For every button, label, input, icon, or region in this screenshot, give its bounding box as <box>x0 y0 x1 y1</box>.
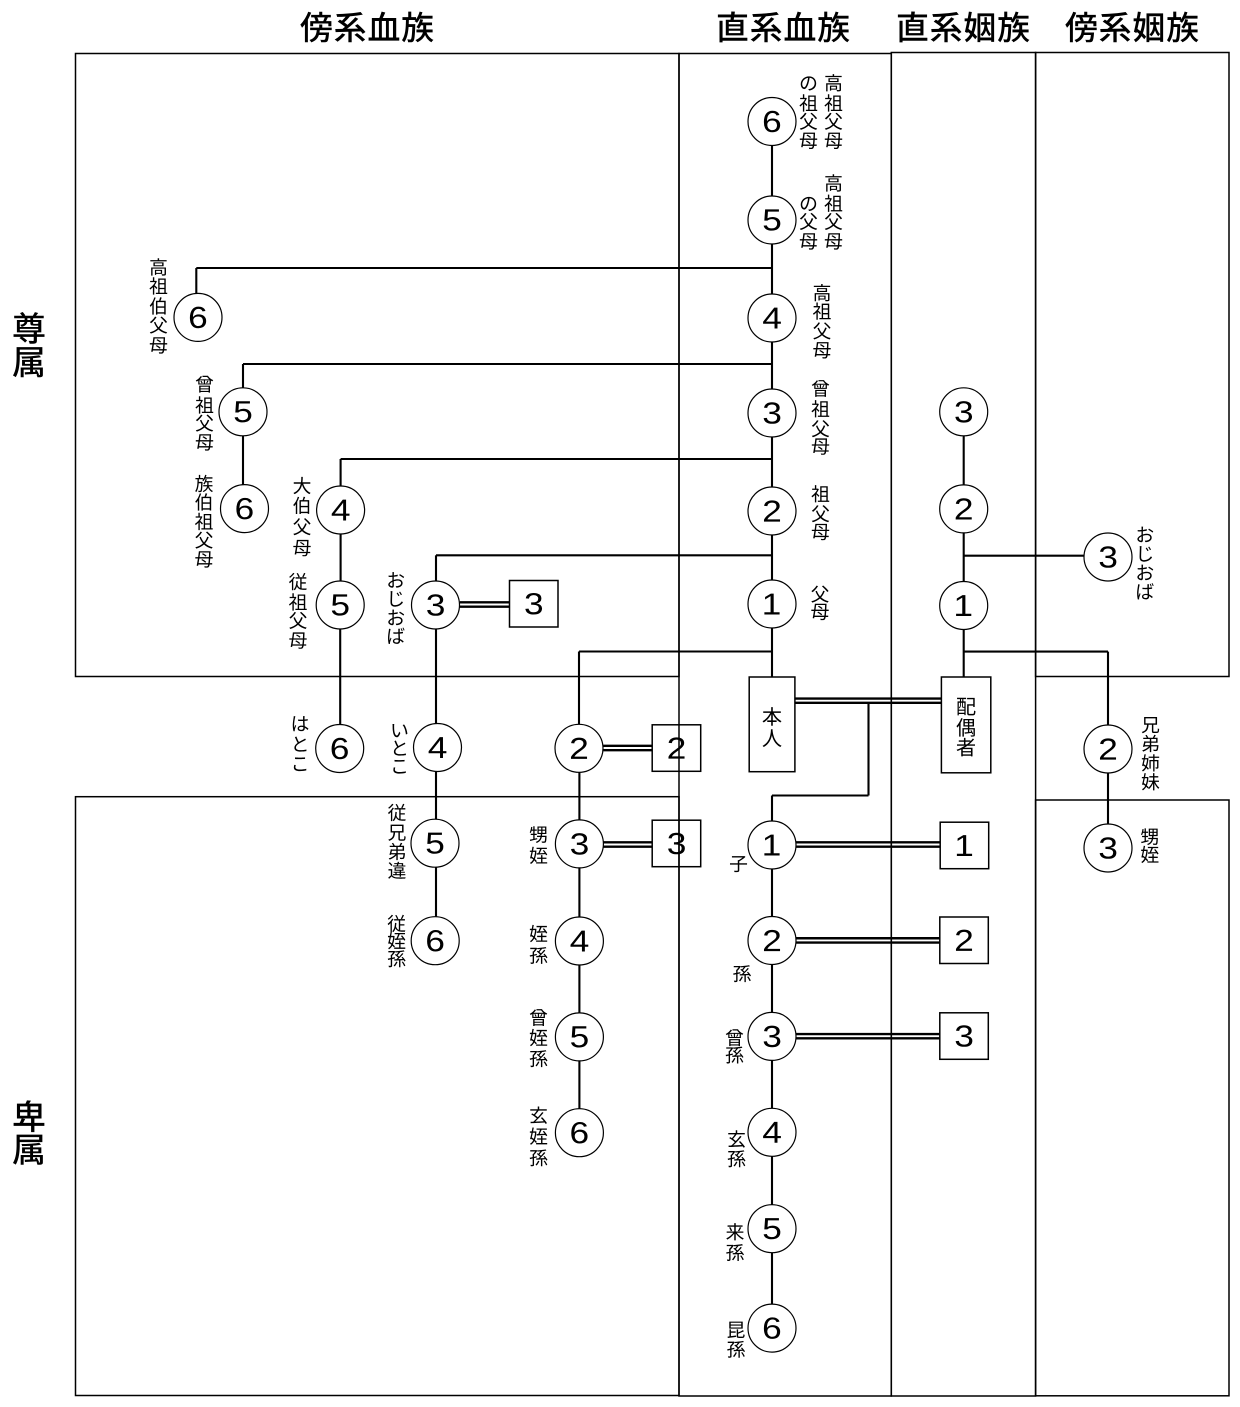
wire 兄弟姉妹(2)右-甥姪(3)右 <box>1107 773 1109 824</box>
node 子 1 <box>748 821 796 869</box>
header 直系血族 <box>718 12 850 43</box>
wire drop to おじおば(3) <box>435 555 437 581</box>
square おじおばの配偶者 3 <box>510 581 559 628</box>
marriage 孫(2)=配偶者(2) <box>795 938 940 942</box>
wire 従祖父母(5)-はとこ(6) <box>339 629 341 725</box>
square 子の配偶者 1 <box>940 822 989 869</box>
label 玄姪孫 <box>530 1106 548 1166</box>
node 高祖父母の父母 5 <box>748 196 796 244</box>
wire couple drop horizontal <box>772 794 869 796</box>
node 従兄弟違 5 <box>411 819 459 867</box>
wire 子(1)-孫(2) <box>771 869 773 917</box>
node 来孫 5 <box>748 1205 796 1253</box>
wire 孫(2)-曾孫(3) <box>771 965 773 1013</box>
node 兄弟姉妹(右) 2 <box>1084 725 1132 773</box>
label 従祖父母 <box>289 573 307 649</box>
box 傍系姻族 尊属 (top-right region frame) <box>1036 53 1229 677</box>
wire drop to 曾祖父母(5) <box>242 364 244 388</box>
wire 従兄弟違(5)-従姪孫(6) <box>435 867 437 916</box>
label 高祖父母の父母 <box>800 174 842 249</box>
node 祖父母 2 <box>748 487 796 535</box>
label 子 <box>730 856 747 872</box>
wire 配偶者側(1)-配偶者 <box>963 630 965 678</box>
node 昆孫 6 <box>748 1304 796 1352</box>
wire 甥姪(3)-姪孫(4) <box>578 868 580 918</box>
node 直系姻族 2 <box>940 485 988 533</box>
label 甥姪 <box>530 826 548 864</box>
wire drop to 子(1) <box>771 796 773 821</box>
wire branch to 兄弟姉妹(2) <box>579 650 772 652</box>
wire branch to おじおば(右) <box>964 555 1084 557</box>
square 兄弟姉妹の配偶者 2 <box>652 725 701 772</box>
node 曾姪孫 5 <box>555 1013 603 1061</box>
box 直系姻族 column frame <box>891 53 1035 1397</box>
box 傍系血族 卑属 (bottom-left region frame) <box>76 797 680 1396</box>
wire drop to 兄弟姉妹(2)右 <box>1107 652 1109 725</box>
box 傍系血族 尊属 (top-left region frame) <box>76 54 680 677</box>
node おじおば(左) 3 <box>412 581 460 629</box>
wire drop to 大伯父母(4) <box>340 459 342 486</box>
label 従兄弟違 <box>388 804 406 879</box>
label おじおば(右) <box>1137 527 1154 600</box>
node 高祖伯父母 6 <box>174 293 222 341</box>
marriage 曾孫(3)=配偶者(3) <box>795 1034 940 1038</box>
wire 高祖父母(4)-曾祖父母(3) <box>771 343 773 390</box>
marriage 兄弟姉妹(2)=配偶者(2) <box>603 746 652 750</box>
wire branch to 配偶者の兄弟姉妹 <box>964 651 1108 653</box>
node 直系姻族 3 <box>940 388 988 436</box>
node おじおば(右) 3 <box>1084 533 1132 581</box>
wire 大伯父母(4)-従祖父母(5) <box>340 534 342 581</box>
square 曾孫の配偶者 3 <box>940 1013 989 1060</box>
node いとこ 4 <box>414 724 462 772</box>
marriage 甥姪(3)=配偶者(3) <box>603 842 652 846</box>
label いとこ <box>392 724 407 774</box>
node 甥姪 3 <box>555 820 603 868</box>
node 甥姪(右) 3 <box>1084 824 1132 872</box>
label 昆孫 <box>727 1322 745 1358</box>
wire branch to 曾祖父母(5) <box>243 363 772 365</box>
wire 配偶者側(3)-(2) <box>963 436 965 485</box>
label おじおば(左) <box>388 572 405 644</box>
node 高祖父母 4 <box>748 294 796 342</box>
marriage 子(1)=配偶者(1) <box>795 842 940 846</box>
wire branch to おじおば(左) <box>436 554 772 556</box>
label 族伯祖父母 <box>195 475 213 568</box>
wire branch to 大伯父母 <box>341 458 772 460</box>
node 玄孫 4 <box>748 1108 796 1156</box>
wire 曾姪孫(5)-玄姪孫(6) <box>578 1061 580 1109</box>
node 兄弟姉妹 2 <box>555 724 603 772</box>
label 高祖父母の祖父母 <box>799 74 842 149</box>
label 祖父母 <box>811 485 829 540</box>
node 配偶者 box <box>941 677 990 773</box>
label 曾孫 <box>726 1029 744 1063</box>
wire 姪孫(4)-曾姪孫(5) <box>578 965 580 1013</box>
node 高祖父母の祖父母 6 <box>748 98 796 146</box>
wire couple drop vertical <box>867 703 869 796</box>
wire 来孫(5)-昆孫(6) <box>771 1253 773 1304</box>
wire 曾祖父母(5)-族伯祖父母(6) <box>242 436 244 485</box>
node 曾孫 3 <box>748 1012 796 1060</box>
wire 兄弟姉妹(2)-甥姪(3) <box>578 772 580 820</box>
label 曾姪孫 <box>530 1009 548 1067</box>
side label 卑属 <box>13 1100 44 1164</box>
wire 祖父母(2)-父母(1) <box>771 536 773 581</box>
marriage 本人=配偶者 <box>795 699 942 703</box>
label 曾祖父母(傍系) <box>195 376 213 451</box>
label 来孫 <box>726 1223 744 1261</box>
label 高祖父母 <box>813 284 831 359</box>
node 玄姪孫 6 <box>555 1109 603 1157</box>
label 曾祖父母 <box>811 380 829 455</box>
header 直系姻族 <box>898 12 1030 43</box>
box 傍系姻族 卑属 (bottom-right region frame) <box>1036 800 1229 1396</box>
label 姪孫 <box>530 925 548 964</box>
node はとこ 6 <box>316 725 364 773</box>
side label 尊属 <box>13 312 45 377</box>
label 甥姪(右) <box>1141 828 1159 863</box>
wire 配偶者側(2)-(1) <box>963 533 965 582</box>
node 従姪孫 6 <box>411 917 459 965</box>
label 従姪孫 <box>388 915 406 967</box>
node 曾祖父母 3 <box>748 389 796 437</box>
marriage おじおば(3)=配偶者(3) <box>460 602 510 606</box>
wire 父母(1)-本人 <box>771 629 773 678</box>
label 玄孫 <box>728 1130 746 1167</box>
node 大伯父母 4 <box>317 486 365 534</box>
label 高祖伯父母 <box>149 258 167 353</box>
wire いとこ(4)-従兄弟違(5) <box>435 771 437 819</box>
label 大伯父母 <box>293 477 311 556</box>
node 曾祖父母(傍系) 5 <box>219 388 267 436</box>
label 兄弟姉妹(右) <box>1142 717 1160 790</box>
node 姪孫 4 <box>555 917 603 965</box>
wire 曾祖父母(3)-祖父母(2) <box>771 438 773 488</box>
node 族伯祖父母 6 <box>221 485 269 533</box>
node 父母 1 <box>748 580 796 628</box>
header 傍系血族 <box>300 12 433 43</box>
label 孫 <box>733 965 751 982</box>
header 傍系姻族 <box>1065 12 1198 43</box>
node 本人 box <box>749 677 795 772</box>
label はとこ <box>293 716 309 771</box>
wire 玄孫(4)-来孫(5) <box>771 1156 773 1204</box>
square 甥姪の配偶者 3 <box>652 820 701 867</box>
label 父母 <box>811 586 828 621</box>
node 孫 2 <box>748 917 796 965</box>
box 直系血族 column frame <box>679 54 891 1397</box>
node 直系姻族 1 <box>940 582 988 630</box>
wire 高祖父母の祖父母(6)-高祖父母の父母(5) <box>771 146 773 196</box>
wire drop to 兄弟姉妹(2) <box>578 652 580 725</box>
node 従祖父母 5 <box>316 581 364 629</box>
wire 高祖父母の父母(5)-高祖父母(4) <box>771 245 773 294</box>
square 孫の配偶者 2 <box>940 917 989 964</box>
wire drop to 高祖伯父母(6) <box>195 268 197 293</box>
wire branch to 高祖伯父母 <box>196 267 772 269</box>
wire おじおば(3)-いとこ(4) <box>435 629 437 724</box>
wire 曾孫(3)-玄孫(4) <box>771 1060 773 1108</box>
